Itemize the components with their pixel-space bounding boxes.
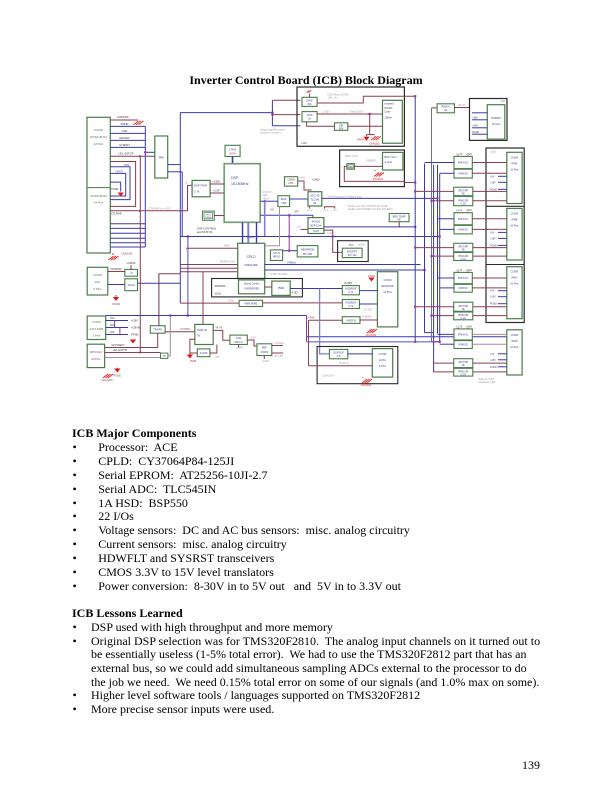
feed iso A (440, 172, 454, 174)
regulator ACE 330mA (230, 335, 247, 344)
svg-text:FE: FE (462, 250, 465, 252)
wire speed-pwm (265, 286, 272, 288)
svg-text:4 Pins: 4 Pins (379, 364, 387, 368)
regulator 5AMP (197, 349, 210, 357)
svg-text:IPMC: IPMC (511, 277, 517, 280)
wire adc cbv hairpin (325, 207, 335, 209)
svg-text:PRESSURE: PRESSURE (245, 264, 259, 267)
svg-text:4PV: 4PV (349, 244, 354, 247)
net UCL ESTOP wire (110, 155, 155, 157)
wire kvl out C (472, 277, 507, 279)
bus y341 peri (307, 341, 440, 343)
svg-text:0.1%: 0.1% (461, 259, 466, 261)
svg-text:24 Pins: 24 Pins (94, 201, 104, 205)
svg-text:IL215: IL215 (490, 152, 496, 154)
wire iso out B (472, 228, 507, 230)
svg-text:BSP-12x4: BSP-12x4 (311, 225, 322, 228)
svg-text:BAT conn: BAT conn (385, 155, 397, 159)
fuse TAB (347, 164, 355, 170)
ground PGND epw (368, 278, 374, 282)
wire pwr-5amp right (210, 345, 217, 354)
isolator IPM/ISO B (454, 225, 472, 234)
svg-text:PWM: PWM (357, 137, 363, 141)
svg-text:EPW/GND: EPW/GND (381, 284, 394, 288)
wire ipmoc out (454, 107, 469, 109)
svg-text:+5V /R: +5V /R (458, 104, 466, 107)
svg-text:+5: +5 (185, 181, 189, 185)
wire hsdB right (359, 303, 377, 305)
svg-text:IPM/K/VL: IPM/K/VL (458, 277, 469, 280)
rail blue 437 (437, 165, 439, 334)
wire tmp out B (473, 247, 507, 249)
svg-text:DSP: DSP (231, 176, 239, 180)
junction gfci (114, 321, 116, 328)
net PGND wire (110, 125, 145, 127)
wire dm5pv (348, 125, 383, 127)
wire 54HC to cage exit (317, 96, 415, 103)
prog header OTUS (270, 250, 282, 261)
svg-text:+5VA: +5VA (466, 209, 472, 212)
svg-text:JTAG: JTAG (229, 148, 237, 152)
connector IPM/MN (487, 105, 505, 139)
net UCL ESTOP vertical (139, 156, 141, 353)
feed kvl A (425, 162, 455, 164)
mux MUX16 (308, 218, 324, 234)
wire peri right (264, 201, 266, 236)
pwm block (272, 281, 290, 295)
svg-text:REF: REF (262, 346, 268, 350)
rail blue 433 (433, 165, 435, 373)
wire peri vertical 319 (320, 289, 330, 354)
red arrow on UPS loop (118, 193, 124, 197)
net +C3S (272, 345, 283, 347)
svg-text:CONN: CONN (511, 211, 519, 215)
dac CBM8 (285, 177, 298, 186)
svg-text:+5VA: +5VA (466, 269, 472, 272)
svg-text:AGND: AGND (358, 244, 365, 247)
wire hsdA right (359, 290, 377, 292)
svg-text:PGND: PGND (112, 302, 120, 306)
svg-text:DSP PWR: DSP PWR (194, 184, 207, 188)
wire pwr feed vertical (202, 272, 204, 325)
net +CBVB (106, 327, 128, 329)
bus y270 (265, 269, 425, 271)
bus y314 (106, 315, 307, 317)
svg-text:IPM/MN: IPM/MN (491, 116, 500, 120)
wire to LAN cage 1 (272, 99, 300, 101)
svg-text:+CBO: +CBO (332, 210, 338, 212)
wire mux to mosfet (324, 230, 342, 252)
svg-text:+15V: +15V (490, 359, 496, 362)
svg-text:0.1%: 0.1% (461, 375, 466, 377)
svg-text:CONN: CONN (93, 273, 102, 277)
svg-text:+BUS: +BUS (263, 197, 270, 200)
wire hrefB right (360, 319, 377, 321)
junction top bus (271, 112, 273, 114)
svg-text:+4.7V: +4.7V (215, 326, 222, 330)
net UPS hairpin 1 (110, 167, 130, 200)
svg-text:PWR IN: PWR IN (197, 328, 207, 332)
processor DSP U1 (224, 164, 260, 223)
svg-text:+1.7k: +1.7k (456, 269, 463, 272)
svg-text:15kHz: 15kHz (385, 116, 393, 120)
svg-text:HDARLT: HDARLT (119, 136, 130, 140)
bus blue second vertical (181, 172, 183, 237)
rail connects (432, 341, 440, 343)
wire to LAN cage 2 (272, 114, 300, 116)
svg-text:+CBO: +CBO (296, 226, 302, 228)
svg-text:TAB: TAB (349, 166, 354, 169)
svg-text:TACH: TACH (313, 230, 320, 233)
tach sensor TACH (125, 279, 138, 291)
rail blue 415 (414, 96, 416, 342)
stubs conn C (498, 290, 507, 292)
svg-text:0.1%: 0.1% (461, 203, 466, 205)
svg-text:FE: FE (462, 365, 465, 367)
svg-text:FE: FE (444, 109, 447, 112)
transceiver TRXFS (150, 326, 165, 334)
wire aux vertical (308, 320, 310, 366)
net ZL45 (272, 352, 283, 354)
bus mux right (324, 226, 415, 228)
transceiver TRX (155, 136, 168, 178)
driver HSD/BUF A (342, 286, 359, 295)
wire trxfs right (165, 331, 195, 333)
svg-text:UCL ESTOP: UCL ESTOP (113, 348, 128, 352)
svg-text:SPI 4Mb: SPI 4Mb (303, 253, 313, 256)
svg-text:3.7k: 3.7k (336, 355, 341, 358)
svg-text:10 Pins: 10 Pins (383, 290, 392, 294)
title (0, 73, 612, 88)
bus vertical CAN/HDARLT/SYSRST (144, 126, 146, 247)
svg-text:CHASSIS: CHASSIS (369, 143, 380, 146)
connector BAT conn (383, 152, 403, 170)
ground CHASSIS aux (362, 379, 372, 383)
wire brdtemp down (398, 222, 400, 228)
svg-text:IPM/K/VL: IPM/K/VL (458, 333, 469, 336)
svg-text:+CBUS: +CBUS (127, 261, 136, 265)
svg-text:PGND: PGND (472, 131, 479, 134)
net CTLPWR wire (110, 210, 187, 212)
feed iso C (440, 287, 454, 289)
svg-text:AUXA: AUXA (379, 358, 386, 362)
svg-text:16 Pins: 16 Pins (510, 224, 519, 227)
wire to LAN cage 3 (272, 125, 300, 127)
svg-text:CONN: CONN (379, 352, 387, 356)
svg-text:IPM/CUR: IPM/CUR (458, 199, 468, 202)
svg-text:TC SPS: TC SPS (364, 309, 373, 311)
wire dsp-cpld 3 (256, 222, 258, 243)
svg-text:TACH: TACH (127, 283, 134, 287)
svg-text:+1.7k: +1.7k (456, 153, 463, 156)
sensor IPM/CUR B (454, 253, 473, 261)
gate driver IPM/K/VL B (454, 213, 472, 225)
sensor IPM TMP B (454, 243, 473, 252)
feed iso B (440, 228, 454, 230)
net FANPWR (108, 271, 125, 273)
svg-text:16 Pins: 16 Pins (510, 346, 519, 349)
svg-text:and STATUS: and STATUS (197, 230, 213, 234)
wire purple down 306 (306, 316, 308, 342)
wire tp mauve (168, 316, 170, 356)
wire cbm8 to adc (298, 181, 312, 190)
isolator IPM/ISO A (454, 169, 472, 178)
svg-text:+1.7k: +1.7k (456, 209, 463, 212)
adc U3 TLC545 (308, 192, 322, 206)
svg-text:EXTRA: EXTRA (94, 142, 103, 146)
svg-text:AGND: AGND (307, 209, 314, 212)
svg-text:UPS: UPS (124, 164, 129, 167)
svg-text:3.7k: 3.7k (194, 190, 200, 194)
svg-text:CONN: CONN (511, 270, 519, 274)
svg-text:+5V2: +5V2 (300, 177, 307, 180)
svg-text:PGND: PGND (490, 303, 497, 306)
wire wps aux (105, 357, 161, 359)
net UPS hairpin maroon (110, 162, 135, 207)
connector CONN AUXA (372, 349, 392, 378)
svg-text:WITH: WITH (229, 153, 235, 156)
feed cur B (432, 255, 454, 257)
isolator DM 5PV (335, 123, 348, 131)
svg-text:PWM: PWM (278, 286, 284, 290)
red arrow lan (363, 137, 369, 141)
svg-text:INTRA-BUS2: INTRA-BUS2 (90, 194, 107, 198)
svg-text:13%, .2m: 13%, .2m (327, 97, 337, 100)
net +CBUS stub (130, 265, 132, 269)
svg-text:CONN: CONN (511, 333, 519, 337)
svg-text:20A: 20A (307, 103, 312, 106)
svg-text:BUF: BUF (281, 197, 287, 201)
connector JTAG (225, 145, 240, 156)
svg-text:0.7k: 0.7k (349, 305, 354, 308)
svg-text:Conv: Conv (385, 111, 392, 114)
svg-text:330mA: 330mA (234, 340, 242, 344)
shield cage mosfet (338, 241, 369, 262)
svg-text:PROG: PROG (273, 256, 280, 259)
wire fan tach in (108, 284, 125, 286)
svg-text:CONN: CONN (92, 320, 101, 324)
gate driver IPM/K/VL D (454, 329, 472, 340)
svg-text:IPM/CUR: IPM/CUR (458, 255, 468, 258)
wire bat loop (344, 166, 404, 181)
svg-text:Neutral for 4-WF: Neutral for 4-WF (479, 381, 497, 384)
svg-text:+3.86V: +3.86V (312, 179, 320, 182)
sensor IPM TMP D (454, 359, 473, 368)
svg-text:+15V: +15V (490, 296, 496, 299)
connector CONN GFCI PWR (87, 316, 106, 340)
svg-text:MEM/PROM: MEM/PROM (301, 249, 314, 252)
connector CONN IPMA (507, 152, 522, 203)
wire bus to TRX (145, 151, 155, 153)
svg-text:IPM TMP: IPM TMP (458, 189, 468, 192)
svg-text:CPLD: CPLD (247, 255, 257, 259)
ground CHASSIS bottom left (112, 253, 114, 255)
wire buf to adc (290, 198, 308, 200)
svg-text:LAN: LAN (302, 141, 307, 145)
svg-text:4 pins: 4 pins (385, 160, 393, 164)
wire spi line (260, 215, 313, 218)
svg-text:TP: TP (163, 354, 167, 358)
rail blue 424 (424, 164, 426, 333)
ICB Lessons Learned section (72, 607, 568, 717)
shield cage AUX (317, 347, 398, 384)
svg-text:18-150MHz: 18-150MHz (231, 182, 249, 186)
wire bat out (404, 182, 415, 184)
wire dsp-cpld 2 (247, 222, 249, 243)
feed tmp A (415, 190, 454, 192)
svg-text:OVERSPEED: OVERSPEED (244, 288, 259, 291)
testpoint TP (161, 353, 168, 358)
wire pwm out (290, 288, 342, 290)
bus blue top horizontal (180, 112, 272, 114)
svg-text:SPI: SPI (294, 210, 298, 214)
svg-text:Isolated: Isolated (385, 102, 395, 106)
svg-text:CTLPWR: CTLPWR (111, 212, 122, 215)
ground PGND fan (113, 297, 119, 301)
wire kvl out D (472, 333, 507, 335)
svg-text:IPM/ISO: IPM/ISO (458, 344, 468, 347)
feed tmp D (434, 362, 454, 364)
ground PGND wps (114, 369, 120, 373)
stubs conn B (498, 231, 507, 233)
svg-text:8A: 8A (313, 202, 316, 205)
net PWMOx (265, 264, 421, 266)
regulator SUPSUP (329, 349, 347, 358)
svg-text:IPM/K/VL: IPM/K/VL (458, 162, 469, 165)
svg-text:GFCI PWR: GFCI PWR (89, 327, 103, 331)
wires ipm mn stubs (472, 112, 487, 114)
svg-text:Brake for NV/M: Brake for NV/M (479, 378, 495, 381)
regulator PWR IN (195, 324, 213, 344)
oscillator OSC1 (202, 211, 214, 220)
wire cur out C (473, 315, 507, 317)
svg-text:+5V: +5V (490, 231, 495, 234)
sensor IPM/CUR C (454, 312, 473, 320)
wire iso out D (472, 343, 507, 345)
isolator IPM/ISO C (454, 284, 472, 292)
svg-text:+C3P: +C3P (213, 188, 220, 192)
driver HSD/BUF B (342, 300, 359, 309)
svg-text:J506: J506 (501, 101, 507, 103)
wire cur out A (473, 200, 507, 202)
svg-text:IPM TMP: IPM TMP (458, 305, 468, 308)
net +C3X (247, 340, 257, 346)
svg-text:C2M 2CM: C2M 2CM (322, 375, 333, 378)
connector CONN FAN (87, 267, 108, 295)
wire osc to dsp (214, 215, 224, 217)
svg-text:CTLPWR Lx H-DIT: CTLPWR Lx H-DIT (149, 206, 171, 210)
transceiver 74HC (302, 112, 317, 122)
svg-text:+15V: +15V (490, 181, 496, 184)
svg-text:CONN: CONN (511, 155, 519, 159)
ICB Major Components section (72, 427, 552, 594)
feed cur A (432, 200, 454, 202)
svg-text:FE: FE (462, 309, 465, 311)
wire TRX output 1 (168, 164, 181, 166)
cpld U2 CPLD (238, 243, 265, 278)
net +CBV (106, 320, 128, 322)
svg-text:PGND: PGND (368, 275, 375, 278)
wire supsup-auxa (348, 353, 373, 355)
stubs conn D (498, 353, 507, 355)
svg-text:+5V: +5V (490, 290, 495, 293)
wire tab to bat (355, 165, 383, 167)
svg-text:+CBV: +CBV (323, 210, 329, 212)
ground arrow gfci (130, 340, 136, 344)
svg-text:5V: 5V (197, 334, 201, 338)
net +1.89V (210, 183, 224, 185)
svg-text:ZL 4.5V: ZL 4.5V (275, 355, 284, 358)
ground CHASSIS lan (371, 136, 381, 140)
svg-text:+CBVB: +CBVB (131, 326, 140, 330)
bus middle horizontal (180, 236, 440, 238)
svg-text:IPMB: IPMB (511, 218, 517, 221)
svg-text:SPDSFM: SPDSFM (215, 284, 226, 288)
svg-text:CONN: CONN (384, 278, 392, 282)
svg-text:74M: 74M (281, 201, 286, 205)
svg-text:IPMD: IPMD (511, 340, 517, 343)
svg-text:+5V: +5V (490, 353, 495, 356)
svg-text:CAN: CAN (122, 129, 128, 133)
svg-text:+1.7k: +1.7k (456, 325, 463, 328)
ground CHASSIS wps (103, 374, 113, 378)
connector CONN EPW/GND (377, 272, 397, 327)
svg-text:CHASSIS: CHASSIS (101, 378, 113, 382)
svg-text:FE: FE (398, 219, 401, 222)
svg-text:+CBV: +CBV (131, 319, 138, 323)
svg-text:SCtls: SCtls (215, 292, 222, 296)
svg-text:MEM: MEM (224, 245, 230, 248)
wire adc gnd (308, 206, 310, 209)
svg-text:2A: 2A (308, 118, 311, 121)
svg-text:PGND: PGND (113, 374, 121, 378)
svg-text:CHASSIS: CHASSIS (361, 384, 372, 387)
wire kvl out B (472, 218, 507, 220)
connector CONN IPMB (507, 208, 522, 260)
wire dsp-cpld 1 (242, 222, 244, 243)
svg-text:CHASSIS: CHASSIS (373, 178, 384, 181)
connector J1 CONN INTRA-BUS1 (87, 117, 110, 253)
svg-text:SD/B: SD/B (228, 299, 234, 302)
bus y198 right (437, 165, 439, 199)
svg-text:+4.5B0/B: +4.5B0/B (362, 316, 372, 319)
wire isolated pwm (369, 113, 371, 115)
svg-text:16 Pins: 16 Pins (510, 168, 519, 171)
svg-text:DSP CONTROL: DSP CONTROL (197, 227, 217, 231)
buffer BUF 74M (278, 196, 290, 207)
ground CHASSIS epw (367, 329, 377, 333)
sensor IPM/CUR D (454, 368, 473, 376)
svg-text:PWM: PWM (190, 359, 196, 363)
converter Isolated DC/DC (383, 100, 403, 143)
svg-text:CT/PWR: CT/PWR (180, 328, 190, 331)
svg-text:PIC 10A: PIC 10A (348, 254, 357, 257)
svg-text:IPM/ISO: IPM/ISO (458, 173, 468, 176)
svg-text:UL BPV: UL BPV (344, 282, 353, 285)
svg-text:+5VA: +5VA (466, 153, 472, 156)
net UCL ESTOP 2 (105, 352, 161, 354)
feed tmp C (415, 306, 454, 308)
svg-text:60 Pins: 60 Pins (91, 357, 101, 361)
connector CONN IPMC (507, 267, 522, 319)
svg-text:+5VA: +5VA (466, 325, 472, 328)
wire iso out C (472, 287, 507, 289)
svg-text:AandCONST: AandCONST (350, 110, 364, 113)
net HDARLT wire (110, 139, 145, 141)
sensor IPM/CUR A (454, 196, 473, 205)
svg-text:IPM/CUR: IPM/CUR (458, 314, 468, 317)
wire kvl out A (472, 162, 507, 164)
